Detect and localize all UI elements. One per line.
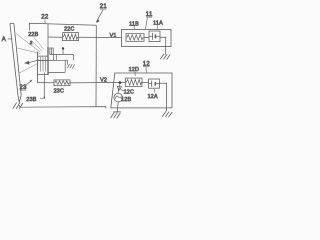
- wire battery 11A to ground: [160, 37, 166, 54]
- ground (box 12 right): [162, 111, 172, 117]
- wire: bottom wire to V2: [38, 81, 126, 84]
- beam ray (lower): [19, 63, 38, 73]
- electron gun assembly 21: [38, 47, 75, 82]
- ground bus line (tube base): [20, 105, 106, 109]
- wire: electrode drop x48: [47, 24, 49, 47]
- junction dot (node V2): [119, 81, 122, 84]
- electrode plate lines: [38, 54, 74, 72]
- label 11: [146, 12, 153, 29]
- screen electrode A (slanted double bar): [10, 23, 21, 103]
- resistor 12D: [126, 67, 143, 87]
- wire 11B to 11A: [144, 36, 149, 38]
- svg-text:A: A: [2, 37, 6, 43]
- label 22: [41, 15, 49, 24]
- battery 11A: [149, 21, 163, 42]
- label 12: [143, 61, 151, 72]
- label 21: [96, 4, 107, 23]
- wire AC source to ground: [117, 102, 118, 112]
- label A: [2, 37, 12, 43]
- wire battery 12A to ground: [160, 83, 167, 111]
- resistor 22C: [63, 26, 79, 40]
- beam ray (upper): [16, 34, 40, 53]
- svg-text:12B: 12B: [121, 97, 131, 103]
- ground (box 11): [160, 54, 170, 60]
- svg-text:V1: V1: [110, 33, 117, 39]
- battery 12A: [148, 79, 160, 100]
- label 22B: [28, 32, 44, 51]
- gun left wall: [37, 52, 39, 83]
- ground (box 12 left): [111, 112, 121, 119]
- svg-text:V2: V2: [100, 77, 107, 83]
- svg-text:23B: 23B: [26, 97, 36, 103]
- beam axis arrow: [24, 60, 39, 65]
- svg-text:22C: 22C: [64, 26, 75, 32]
- resistor 11B: [126, 21, 144, 41]
- svg-text:11A: 11A: [153, 21, 163, 27]
- beam ray (middle): [17, 48, 40, 54]
- junction dot on gun: [62, 47, 64, 49]
- cathode box lines: [38, 56, 49, 74]
- svg-text:22B: 22B: [28, 32, 38, 38]
- svg-text:12D: 12D: [129, 67, 140, 73]
- label 23B lead: [26, 72, 45, 103]
- svg-text:23C: 23C: [54, 88, 65, 94]
- svg-text:12A: 12A: [148, 94, 158, 100]
- svg-text:12C: 12C: [124, 89, 135, 95]
- resistor 23C: [54, 80, 70, 95]
- component 12C (modulator): [117, 84, 134, 95]
- supply box 11: [122, 29, 172, 46]
- wire: right vertical x96 (ground return): [95, 25, 97, 107]
- ground (screen, bottom left): [13, 103, 23, 109]
- gun internal ground: [67, 60, 69, 65]
- wire 12D to 12A: [142, 81, 149, 83]
- AC source 12B: [114, 93, 132, 103]
- label 23: [20, 80, 33, 92]
- wire: top wire (grounded electrode net): [30, 23, 97, 30]
- wire: mid wire to V1: [48, 36, 122, 39]
- supply box 12: [111, 73, 172, 108]
- grid box G1: [50, 48, 53, 54]
